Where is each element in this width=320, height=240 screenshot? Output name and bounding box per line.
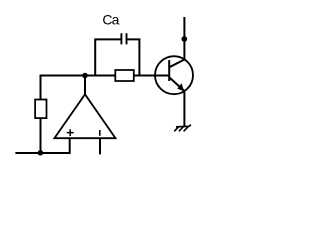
wire capacitor right leg xyxy=(128,39,140,76)
transistor Q1 emitter arrowhead xyxy=(177,83,184,91)
wire left vertical (top wire down to resistor R1) xyxy=(40,75,42,100)
wire collector up xyxy=(183,17,185,60)
op-amp U1 (triangle pointing up) xyxy=(54,94,115,138)
ground slash 1 xyxy=(174,127,179,132)
wire emitter down xyxy=(183,91,185,127)
transistor Q1 base bar xyxy=(168,60,170,81)
node collector terminal dot xyxy=(181,36,187,42)
capacitor Ca plates xyxy=(121,33,126,44)
op-amp - input label (rotated minus) xyxy=(99,130,101,136)
wire op-amp output (dot down to apex) xyxy=(84,76,86,95)
wire base lead (R2 to transistor base) xyxy=(134,75,169,77)
wire top horizontal (op-amp output to base resistor) xyxy=(41,75,116,77)
node junction dot top (op-amp output node) xyxy=(82,73,88,79)
ground (chassis style) bar xyxy=(176,125,191,127)
wire bottom horizontal xyxy=(15,152,69,154)
node junction dot bottom (R1 to ground wire) xyxy=(38,150,44,156)
resistor R1 (left vertical box) xyxy=(35,100,46,119)
wire R1 bottom lead xyxy=(40,118,42,153)
resistor R2 (horizontal box in base line) xyxy=(115,70,134,81)
op-amp + input label xyxy=(67,129,74,136)
transistor Q1 emitter stroke with arrow xyxy=(169,77,184,91)
transistor Q1 circle xyxy=(155,56,193,94)
ground slash 3 xyxy=(184,127,189,132)
wire op-amp - input stub xyxy=(99,139,101,154)
wire op-amp + input lead xyxy=(69,138,71,154)
wire capacitor left leg xyxy=(95,39,120,76)
transistor Q1 collector stroke xyxy=(169,60,184,68)
svg-text:Ca: Ca xyxy=(102,12,119,28)
ground slash 2 xyxy=(179,127,184,132)
